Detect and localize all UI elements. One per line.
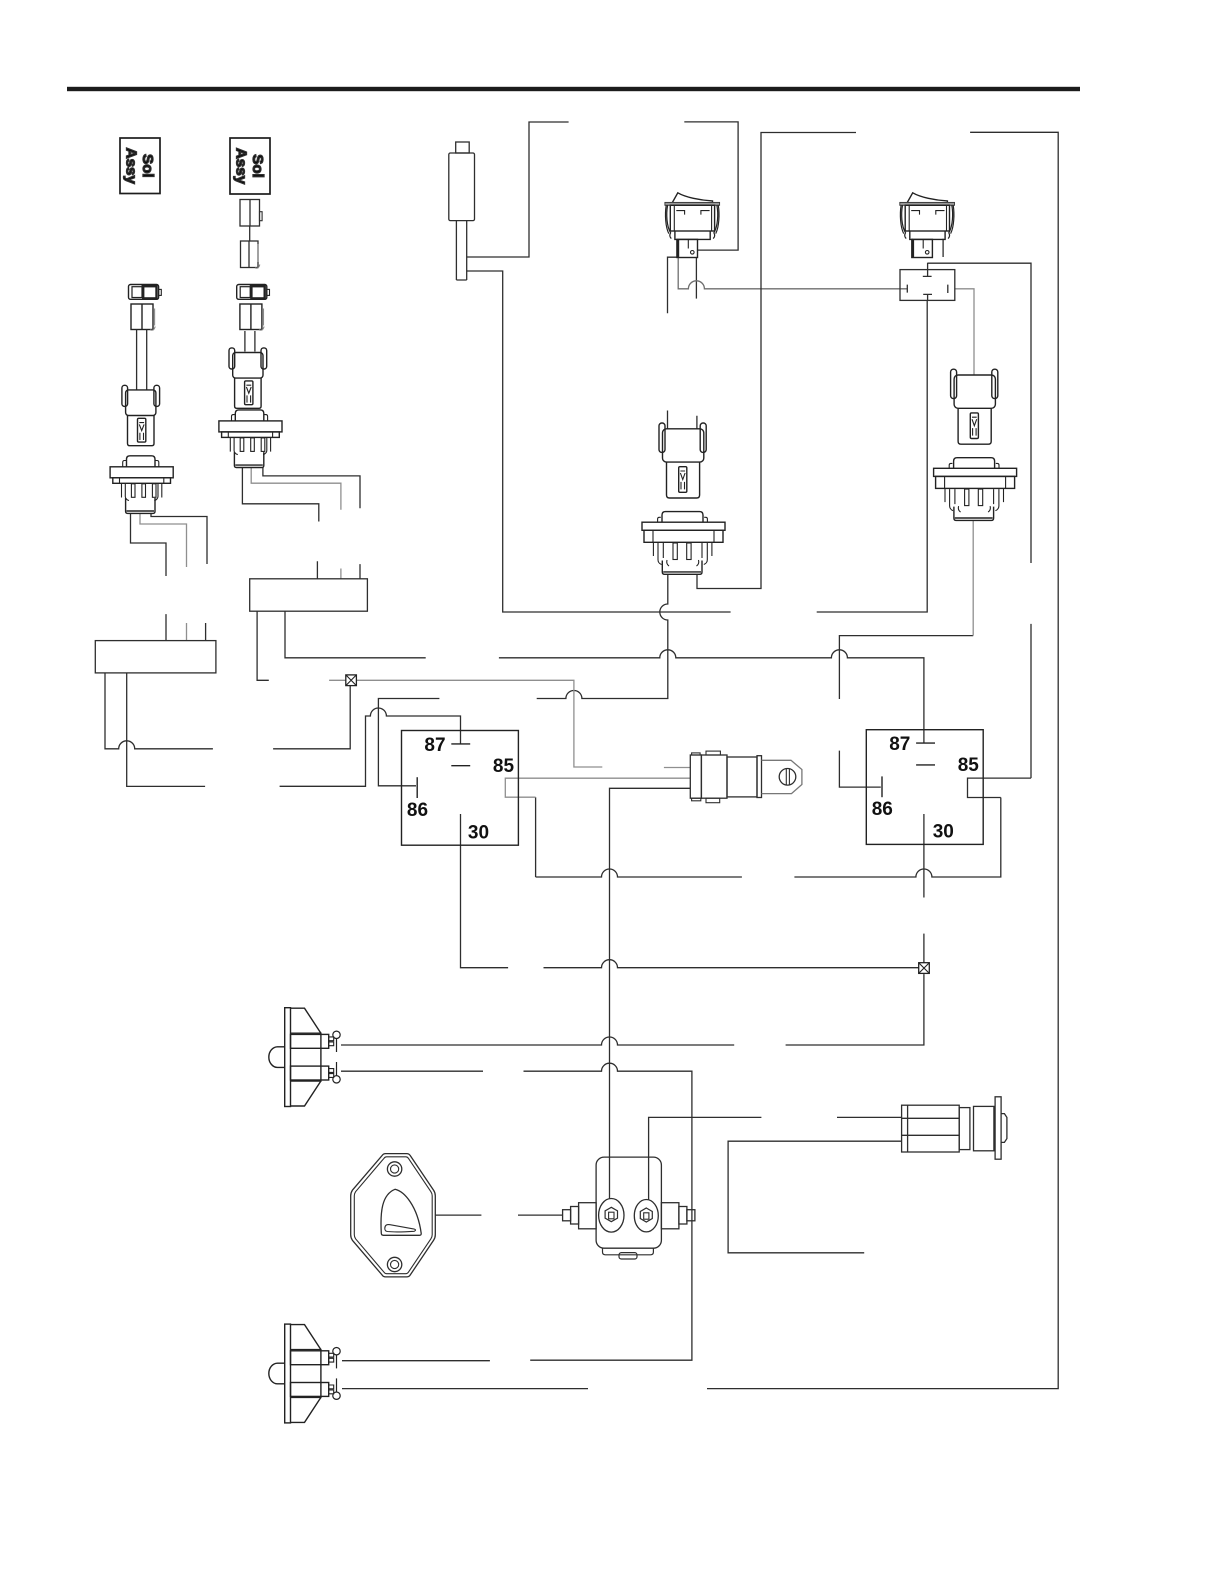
wire box1 right pin to relay1 87 bbox=[127, 673, 461, 787]
wire gray rocker2 box right to right chain bbox=[955, 289, 974, 375]
key switch bbox=[902, 1097, 1007, 1159]
wire gray col1 socket pin2 bbox=[140, 513, 187, 640]
wire middle socket left pin down to node bbox=[537, 574, 668, 698]
antenna component bbox=[449, 142, 475, 280]
wire gray col2 socket pin2 bbox=[251, 467, 341, 579]
wire rocker1 center pin stub bbox=[695, 257, 697, 298]
wire antenna upper to top stub bbox=[467, 122, 569, 257]
rocker switch 2 bbox=[900, 193, 955, 258]
motor actuator 2 bbox=[269, 1324, 340, 1423]
connector box 2 bbox=[250, 579, 368, 611]
wire motor1 bottom to motor2 top bbox=[341, 1063, 692, 1361]
relay 2 bbox=[866, 730, 983, 845]
wire box2 middle pin to relay2 87 bbox=[285, 611, 924, 743]
lever switch plate bbox=[351, 1154, 436, 1277]
rocker2 terminal box bbox=[900, 263, 955, 301]
wire rocker1 to rocker2 box left (y=289) bbox=[678, 257, 907, 289]
connector col2 winged plug bbox=[229, 348, 267, 408]
wire antenna lower to rocker2 box bottom net bbox=[467, 271, 928, 612]
connector middle winged plug bbox=[659, 423, 706, 498]
wire box1 left pin to X1 bbox=[105, 673, 350, 749]
wire node to relay1 86 bbox=[378, 699, 439, 786]
wire fuse bottom to solenoid left bbox=[610, 788, 691, 1198]
relay 1 bbox=[402, 731, 519, 846]
wire rocker1 left pin jog down bbox=[668, 257, 678, 313]
wire middle socket right pin up right loop bbox=[697, 133, 856, 589]
cable col2 bbox=[245, 331, 255, 352]
connector col1 top view bbox=[129, 285, 162, 300]
junction X2 bbox=[919, 963, 930, 974]
connector col2 flanged socket bbox=[219, 410, 282, 468]
connector col1 flanged socket bbox=[110, 456, 173, 514]
wire rocker1 right pin loop bbox=[684, 122, 738, 250]
wire key switch bottom loop bbox=[728, 1141, 902, 1253]
top rule bbox=[67, 87, 1080, 91]
connector col1 winged plug bbox=[122, 385, 160, 445]
connector right flanged socket bbox=[934, 458, 1017, 521]
wire box2 left pin stub bbox=[257, 611, 269, 680]
label box Sol Assy 2 bbox=[230, 138, 270, 194]
label box Sol Assy 1 bbox=[120, 138, 160, 194]
connector col2 small plug B bbox=[241, 241, 260, 268]
wire key switch top to solenoid right bbox=[649, 1117, 902, 1200]
wire col2 socket pin3 to box2 bbox=[263, 467, 360, 579]
connector box 1 bbox=[95, 641, 216, 673]
wire col2 plugA to plugB bbox=[249, 226, 251, 241]
solenoid bbox=[563, 1157, 695, 1259]
connector col2 top view bbox=[237, 285, 270, 300]
connector middle flanged socket bbox=[642, 512, 725, 575]
connector col2 plug bbox=[240, 304, 264, 330]
wire X2 bottom to motor1 top bbox=[341, 974, 924, 1045]
connector col2 small plug A bbox=[240, 200, 262, 227]
junction X1 bbox=[346, 675, 357, 686]
cable col1 bbox=[137, 330, 147, 390]
wire big right frame bbox=[342, 132, 1058, 1388]
wire col1 socket pin1 to box1 bbox=[131, 513, 167, 640]
wire X2 top stub bbox=[923, 934, 925, 963]
connector right winged plug bbox=[951, 369, 998, 444]
wire col1 socket pin3 to box1 bbox=[151, 513, 207, 640]
fuse holder bbox=[690, 751, 802, 803]
wire rocker2 pin stubs bbox=[912, 239, 943, 257]
wire gray fuse mid to relay1 85 bbox=[505, 778, 690, 797]
wire gray right socket bottom bbox=[972, 520, 974, 635]
wire right socket bottom to relay2 86 bbox=[839, 636, 973, 788]
wire relay2 85 tail and link bbox=[794, 263, 1031, 877]
rocker switch 1 bbox=[665, 193, 720, 258]
connector col1 plug bbox=[131, 304, 155, 330]
wire relay1 85 tail bbox=[536, 797, 742, 877]
wire relay1 30 to X2 bbox=[461, 814, 919, 968]
wire middle connector top stubs bbox=[668, 411, 697, 430]
wire lever switch to solenoid left terminal bbox=[435, 1214, 562, 1216]
motor actuator 1 bbox=[269, 1008, 340, 1107]
wire X1 gray to fuse top bbox=[329, 680, 690, 767]
wire relay2 30 stub bbox=[923, 814, 925, 898]
wire col2 socket pin1 to box2 bbox=[242, 467, 318, 579]
